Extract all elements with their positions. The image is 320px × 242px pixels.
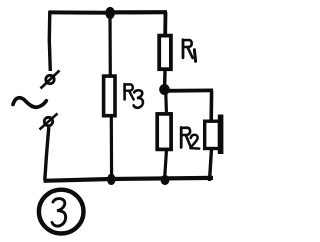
label R3 (125, 84, 143, 108)
wire R1 top lead (163, 12, 167, 34)
wire R2 top lead (164, 93, 168, 112)
terminal (bottom, open circle with slash) (40, 114, 58, 130)
junction node (bottom rail, R3) (107, 174, 116, 185)
terminal (top, open circle with slash) (41, 71, 60, 89)
wire top horizontal (left of node) (49, 10, 111, 14)
figure number 3 (circled) (39, 190, 84, 234)
AC source squiggle (~) (13, 98, 46, 108)
wire R3 bottom lead (110, 118, 113, 180)
label R2 (181, 127, 199, 148)
junction node (bottom rail, R2) (161, 175, 170, 185)
wire R1 bottom lead (163, 71, 167, 86)
wire parallel resistor bottom lead (210, 149, 212, 182)
wire left vertical (bottom terminal down to bottom rail) (45, 127, 49, 180)
resistor R3 (104, 76, 115, 116)
resistor (unlabeled, parallel with R2) (205, 121, 220, 148)
wire R2 bottom lead (165, 151, 167, 176)
junction node (top, at R3 branch) (105, 7, 115, 19)
junction node (mid, R1 bottom / R2 branch) (159, 84, 170, 95)
wire R3 top lead (108, 13, 112, 75)
wire left vertical (top corner down to top terminal) (49, 11, 50, 71)
resistor R1 (159, 36, 171, 70)
right edge double-stroke of parallel resistor (218, 115, 224, 155)
wire bottom rail (44, 178, 214, 181)
label R1 (183, 40, 196, 62)
resistor R2 (157, 114, 171, 149)
wire branch to right resistor (horizontal) (165, 89, 214, 93)
wire right resistor top lead (vertical) (209, 91, 213, 121)
wire top horizontal (node to R1 corner) (110, 10, 167, 14)
